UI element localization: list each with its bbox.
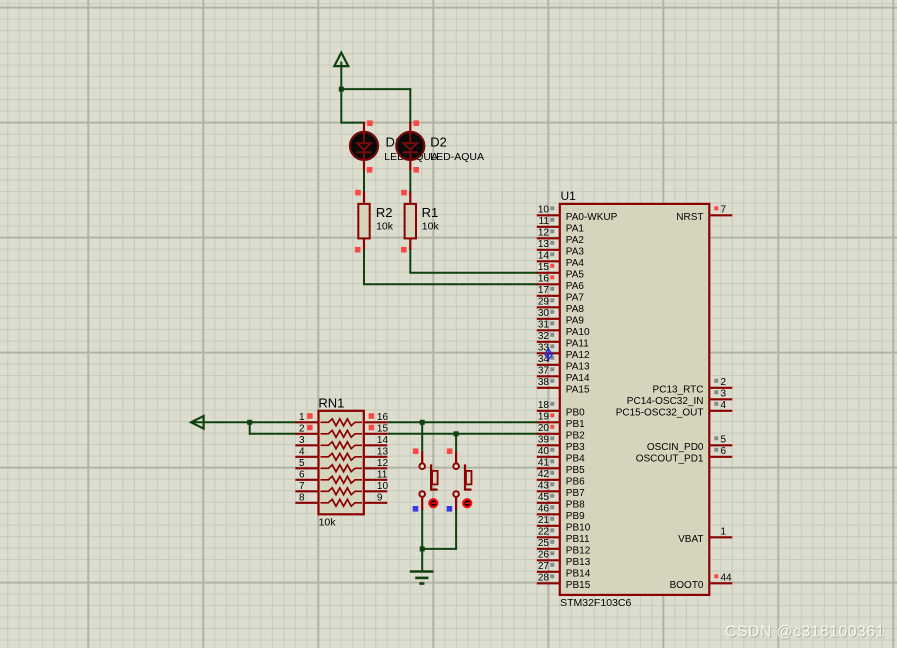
wire D2 to R1 — [409, 171, 411, 194]
pin 29 PA8 — [537, 306, 560, 308]
svg-text:PA11: PA11 — [566, 339, 589, 350]
svg-text:20: 20 — [538, 423, 550, 434]
svg-text:43: 43 — [538, 480, 550, 491]
svg-text:30: 30 — [538, 308, 550, 319]
D1 pin markers — [367, 120, 373, 126]
pin 5 OSCIN_PD0 — [709, 444, 732, 446]
svg-text:10: 10 — [538, 204, 550, 215]
svg-text:5: 5 — [299, 458, 305, 469]
svg-text:PA1: PA1 — [566, 224, 585, 235]
pin 45 PB8 — [537, 502, 560, 504]
svg-text:40: 40 — [538, 446, 550, 457]
svg-text:4: 4 — [721, 400, 727, 411]
svg-text:PB13: PB13 — [566, 557, 591, 568]
svg-text:PB7: PB7 — [566, 488, 585, 499]
svg-text:PA6: PA6 — [566, 281, 585, 292]
wire R1 to PA5 — [410, 249, 538, 273]
svg-text:PA9: PA9 — [566, 316, 585, 327]
svg-text:38: 38 — [538, 377, 550, 388]
resistor R2 — [363, 192, 365, 205]
pin 30 PA9 — [537, 318, 560, 320]
junction dot button1 tap — [420, 420, 425, 425]
SW2 pin marker — [447, 448, 453, 454]
junction dot button2 tap — [454, 431, 459, 436]
svg-text:31: 31 — [538, 319, 550, 330]
svg-text:PA8: PA8 — [566, 304, 585, 315]
svg-text:13: 13 — [377, 447, 389, 458]
svg-text:4: 4 — [299, 447, 305, 458]
svg-text:PB2: PB2 — [566, 431, 585, 442]
svg-text:18: 18 — [538, 400, 550, 411]
svg-text:1: 1 — [721, 526, 727, 537]
svg-text:STM32F103C6: STM32F103C6 — [560, 597, 631, 609]
svg-text:6: 6 — [299, 470, 305, 481]
svg-text:37: 37 — [538, 365, 550, 376]
push button SW1 — [421, 422, 423, 452]
pin 11 PA1 — [537, 226, 560, 228]
pin 1 VBAT — [709, 536, 732, 538]
svg-text:5: 5 — [721, 434, 727, 445]
LED D2 — [396, 132, 424, 160]
wire SW1 to ground node — [421, 510, 423, 552]
pin 39 PB3 — [537, 444, 560, 446]
svg-text:15: 15 — [538, 262, 550, 273]
svg-text:PA3: PA3 — [566, 247, 585, 258]
wire to RN1 pin2 — [250, 433, 297, 435]
svg-text:PC15-OSC32_OUT: PC15-OSC32_OUT — [616, 408, 704, 419]
SW1 state marker — [413, 506, 419, 512]
svg-text:PB6: PB6 — [566, 477, 585, 488]
junction dot ground node — [420, 546, 425, 551]
pin 4 PC15-OSC32_OUT — [709, 410, 732, 412]
svg-text:15: 15 — [377, 424, 389, 435]
svg-text:U1: U1 — [561, 189, 577, 203]
wire SW2 down — [455, 510, 457, 549]
svg-text:NRST: NRST — [676, 212, 703, 223]
svg-text:LED-AQUA: LED-AQUA — [430, 151, 484, 163]
svg-text:OSCOUT_PD1: OSCOUT_PD1 — [636, 454, 704, 465]
svg-text:3: 3 — [721, 388, 727, 399]
pin 16 PA6 — [537, 283, 560, 285]
svg-text:PC14-OSC32_IN: PC14-OSC32_IN — [627, 396, 704, 407]
svg-text:2: 2 — [299, 424, 305, 435]
D2 pin markers — [413, 120, 419, 126]
chip U1 body STM32F103C6 — [560, 204, 710, 595]
svg-text:3: 3 — [299, 435, 305, 446]
R1 pin markers — [401, 190, 407, 196]
pin 22 PB11 — [537, 536, 560, 538]
svg-text:25: 25 — [538, 538, 550, 549]
R2 pin markers — [355, 190, 361, 196]
pin 41 PB5 — [537, 467, 560, 469]
pin 37 PA14 — [537, 375, 560, 377]
svg-text:RN1: RN1 — [318, 396, 344, 411]
SW1 pin marker — [413, 448, 419, 454]
wire RN1 pin16 to PB1 — [387, 421, 538, 423]
svg-text:PB12: PB12 — [566, 546, 591, 557]
pin 33 PA12 — [537, 352, 560, 354]
svg-text:BOOT0: BOOT0 — [670, 580, 704, 591]
wire junction to ground — [421, 549, 423, 572]
LED D1 — [350, 132, 378, 160]
svg-text:PA7: PA7 — [566, 293, 585, 304]
RN1 pin markers — [307, 413, 313, 419]
pin 31 PA10 — [537, 329, 560, 331]
pin 27 PB14 — [537, 571, 560, 573]
pin 15 PA5 — [537, 272, 560, 274]
svg-text:10: 10 — [377, 481, 389, 492]
svg-text:42: 42 — [538, 469, 550, 480]
power terminal VCC arrow — [334, 53, 348, 67]
svg-text:12: 12 — [377, 458, 389, 469]
svg-text:PA14: PA14 — [566, 373, 590, 384]
svg-text:7: 7 — [299, 481, 305, 492]
svg-text:PB8: PB8 — [566, 500, 585, 511]
svg-text:11: 11 — [539, 216, 550, 227]
svg-text:16: 16 — [538, 273, 550, 284]
svg-text:PA15: PA15 — [566, 385, 590, 396]
pin 34 PA13 — [537, 364, 560, 366]
pin 42 PB6 — [537, 479, 560, 481]
svg-text:PA12: PA12 — [566, 350, 590, 361]
svg-text:OSCIN_PD0: OSCIN_PD0 — [647, 442, 704, 453]
svg-text:PB9: PB9 — [566, 511, 585, 522]
pin 6 OSCOUT_PD1 — [709, 456, 732, 458]
pin 40 PB4 — [537, 456, 560, 458]
pin 18 PB0 — [537, 410, 560, 412]
pin 20 PB2 — [537, 433, 560, 435]
pin 2 PC13_RTC — [709, 387, 732, 389]
wire VCC to junction — [340, 62, 342, 91]
pin 10 PA0-WKUP — [537, 214, 560, 216]
svg-text:PB4: PB4 — [566, 454, 585, 465]
cursor marker — [545, 347, 553, 361]
svg-text:PA13: PA13 — [566, 362, 590, 373]
pin 32 PA11 — [537, 341, 560, 343]
svg-text:PB1: PB1 — [566, 419, 585, 430]
wire SW2 to junction — [421, 548, 457, 550]
svg-text:7: 7 — [721, 204, 727, 215]
svg-text:PB3: PB3 — [566, 442, 585, 453]
svg-text:34: 34 — [538, 354, 550, 365]
pin 12 PA2 — [537, 237, 560, 239]
svg-text:46: 46 — [538, 503, 550, 514]
pin 13 PA3 — [537, 249, 560, 251]
pin 43 PB7 — [537, 490, 560, 492]
SW2 state marker — [447, 506, 453, 512]
svg-text:41: 41 — [538, 457, 550, 468]
svg-text:PA4: PA4 — [566, 258, 585, 269]
wire junction to D2 branch — [340, 88, 411, 90]
svg-text:26: 26 — [538, 549, 550, 560]
svg-text:PB5: PB5 — [566, 465, 585, 476]
pin 21 PB10 — [537, 525, 560, 527]
pin 28 PB15 — [537, 582, 560, 584]
resistor network RN1 body — [319, 411, 364, 515]
svg-text:44: 44 — [721, 572, 733, 583]
svg-text:10k: 10k — [376, 220, 394, 232]
wire D1 to R2 — [363, 171, 365, 194]
pin 17 PA7 — [537, 295, 560, 297]
svg-text:PB14: PB14 — [566, 569, 591, 580]
svg-text:17: 17 — [538, 285, 550, 296]
svg-text:22: 22 — [538, 526, 550, 537]
svg-text:29: 29 — [538, 296, 550, 307]
pin 7 NRST — [709, 214, 732, 216]
svg-text:R2: R2 — [376, 205, 393, 220]
wire arrow to RN1 pin1 — [193, 421, 296, 423]
svg-text:PB0: PB0 — [566, 408, 585, 419]
pin 3 PC14-OSC32_IN — [709, 398, 732, 400]
junction dot top — [339, 87, 344, 92]
input terminal arrow — [191, 416, 204, 429]
svg-text:12: 12 — [538, 227, 550, 238]
svg-text:PB15: PB15 — [566, 580, 591, 591]
pin 38 PA15 — [537, 387, 560, 389]
svg-text:28: 28 — [538, 572, 550, 583]
svg-text:PA0-WKUP: PA0-WKUP — [566, 212, 618, 223]
RN1 internal resistors and pin stubs — [295, 421, 318, 423]
svg-text:1: 1 — [299, 412, 305, 423]
wire elbow to D1 top — [341, 122, 365, 124]
svg-text:19: 19 — [538, 411, 550, 422]
svg-text:14: 14 — [538, 250, 550, 261]
push button SW2 — [455, 434, 457, 452]
pin 14 PA4 — [537, 260, 560, 262]
ground symbol — [410, 570, 434, 573]
svg-text:PA5: PA5 — [566, 270, 585, 281]
svg-text:PB10: PB10 — [566, 523, 591, 534]
svg-text:33: 33 — [538, 342, 550, 353]
svg-text:27: 27 — [538, 561, 550, 572]
wire R2 to PA6 — [364, 249, 538, 284]
svg-text:D2: D2 — [430, 135, 447, 150]
svg-text:11: 11 — [377, 470, 388, 481]
svg-text:10k: 10k — [319, 517, 337, 529]
svg-text:PB11: PB11 — [566, 534, 590, 545]
svg-text:21: 21 — [538, 515, 550, 526]
svg-text:39: 39 — [538, 434, 550, 445]
svg-text:13: 13 — [538, 239, 550, 250]
svg-text:VBAT: VBAT — [678, 534, 703, 545]
resistor R1 — [409, 192, 411, 205]
svg-text:16: 16 — [377, 412, 389, 423]
pin 46 PB9 — [537, 513, 560, 515]
pin 19 PB1 — [537, 421, 560, 423]
svg-text:2: 2 — [721, 377, 727, 388]
svg-text:8: 8 — [299, 493, 305, 504]
junction dot left — [247, 420, 252, 425]
svg-text:14: 14 — [377, 435, 389, 446]
svg-text:6: 6 — [721, 446, 727, 457]
svg-text:45: 45 — [538, 492, 550, 503]
pin 26 PB13 — [537, 559, 560, 561]
svg-text:PA10: PA10 — [566, 327, 590, 338]
pin 44 BOOT0 — [709, 582, 732, 584]
svg-text:32: 32 — [538, 331, 550, 342]
svg-text:PC13_RTC: PC13_RTC — [653, 385, 704, 396]
svg-text:CSDN @c318100361: CSDN @c318100361 — [725, 624, 885, 641]
wire junction down — [249, 422, 251, 435]
svg-text:PA2: PA2 — [566, 235, 585, 246]
wire RN1 pin15 to PB2 — [387, 433, 538, 435]
pin 25 PB12 — [537, 548, 560, 550]
svg-text:10k: 10k — [422, 220, 440, 232]
svg-text:9: 9 — [377, 493, 383, 504]
wire VCC branch down to D2 — [409, 89, 411, 123]
svg-text:R1: R1 — [422, 205, 439, 220]
wire down to D1 elbow — [340, 89, 342, 124]
